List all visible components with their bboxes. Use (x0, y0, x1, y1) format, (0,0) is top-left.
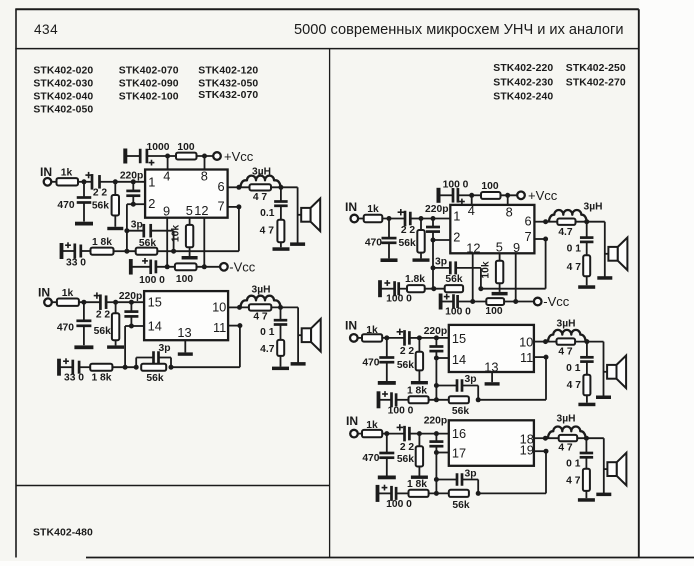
svg-text:100 0: 100 0 (445, 307, 471, 318)
svg-text:STK402-270: STK402-270 (566, 77, 626, 88)
node pin14 junction D (434, 356, 439, 361)
resistor 10k C (481, 253, 504, 292)
ground 56k E (411, 476, 428, 479)
resistor 4.7 zobel B (260, 340, 284, 367)
wire pin 13 stub B (184, 340, 186, 352)
svg-text:4: 4 (468, 203, 475, 218)
node junction 220p top A (131, 179, 136, 184)
speaker LS A (298, 199, 321, 232)
node pin11 D (544, 355, 549, 360)
pin labels E (452, 426, 534, 461)
wire 1k to cap C (382, 218, 405, 220)
svg-text:10k: 10k (171, 225, 182, 242)
wire rail to -Vcc C (504, 301, 534, 303)
svg-text:1k: 1k (61, 168, 73, 179)
node feedback left D (434, 397, 439, 402)
svg-text:100 0: 100 0 (388, 405, 414, 416)
svg-text:6: 6 (524, 213, 531, 228)
wire input D (358, 337, 362, 339)
capacitor 100 0 electrolytic top C (443, 180, 472, 205)
resistor 4.7 output C (557, 219, 575, 239)
wire 1 8k to node E (429, 492, 449, 494)
resistor 4 7 output A (250, 184, 272, 203)
wire output right C (587, 221, 605, 223)
inductor 3uH B (240, 284, 281, 307)
svg-text:56k: 56k (452, 406, 469, 417)
svg-text:100 0: 100 0 (386, 499, 412, 510)
ground 10k C (492, 292, 508, 296)
svg-text:5: 5 (186, 203, 193, 218)
svg-text:14: 14 (452, 352, 466, 367)
wire feedback drop A (127, 204, 133, 251)
node -Vcc terminal A (220, 259, 256, 274)
svg-text:13: 13 (177, 325, 191, 340)
svg-text:IN: IN (345, 200, 357, 214)
capacitor 470 D (362, 338, 394, 381)
wire 1k to cap E (382, 433, 404, 435)
left list column 1 (33, 65, 93, 115)
wire rail to -Vcc A (197, 266, 221, 268)
node junction 56k top B (113, 300, 118, 305)
ground speaker D (596, 396, 611, 400)
svg-text:56k: 56k (94, 326, 111, 337)
node -Vcc terminal C (534, 294, 570, 309)
node junction 56k top A (113, 179, 118, 184)
resistor 1k C (364, 204, 383, 222)
svg-text:100 0: 100 0 (139, 275, 165, 286)
wire feedback drop C (432, 240, 434, 289)
svg-text:+Vcc: +Vcc (528, 188, 558, 203)
svg-text:0 1: 0 1 (567, 244, 582, 255)
node feedback left B (123, 365, 128, 370)
svg-text:15: 15 (148, 295, 162, 310)
svg-text:2: 2 (453, 230, 460, 245)
node junction 56k top C (419, 216, 424, 221)
resistor 1k E (362, 420, 382, 437)
ground 470 A (75, 222, 93, 226)
svg-text:56k: 56k (397, 360, 414, 371)
svg-text:10: 10 (212, 299, 226, 314)
wire output-to-speaker-ground C (604, 222, 606, 278)
node IN input terminal A (40, 165, 52, 185)
resistor 4 7 output E (558, 435, 577, 454)
header title (294, 22, 624, 38)
resistor 4 7 output B (249, 304, 271, 322)
page number 434 (34, 22, 58, 37)
node 3p right C (478, 286, 483, 291)
ground 56k B (107, 345, 124, 348)
svg-text:3µH: 3µH (252, 166, 271, 177)
node 3p right A (171, 249, 176, 254)
svg-text:1: 1 (453, 208, 460, 223)
node pin14 junction B (129, 324, 134, 329)
svg-text:STK402-070: STK402-070 (119, 65, 179, 76)
capacitor 0 1 zobel D (566, 342, 593, 375)
wire rail to 100 A (168, 155, 176, 157)
svg-text:434: 434 (34, 22, 58, 37)
svg-text:33 0: 33 0 (66, 258, 86, 269)
svg-text:8: 8 (506, 205, 513, 220)
resistor 10k A (171, 218, 194, 256)
svg-text:17: 17 (452, 446, 466, 461)
wire pin 19 stub E (534, 450, 546, 452)
wire feedback drop B (125, 326, 131, 367)
svg-text:+Vcc: +Vcc (224, 149, 254, 164)
node IN input terminal D (345, 318, 358, 341)
node junction input D (384, 335, 389, 340)
svg-text:1: 1 (148, 174, 155, 189)
bottom caption STK402-480 (33, 528, 93, 539)
ground pin 13 D (485, 382, 500, 385)
svg-text:0 1: 0 1 (566, 363, 581, 374)
svg-text:3µH: 3µH (557, 414, 576, 425)
node junction 56k top E (417, 431, 422, 436)
svg-text:5: 5 (496, 239, 503, 254)
op-amp IC box D (449, 325, 534, 372)
capacitor 2 2 electrolytic C (398, 209, 421, 236)
wire 1k to cap D (382, 337, 404, 339)
node pin6 output C (543, 219, 548, 224)
capacitor 220p C (425, 204, 448, 240)
node feedback left E (434, 491, 439, 496)
capacitor 3p A (124, 220, 173, 252)
svg-text:56k: 56k (92, 201, 109, 212)
svg-text:1.8k: 1.8k (405, 274, 425, 285)
svg-text:100: 100 (176, 274, 193, 285)
svg-text:2: 2 (148, 196, 155, 211)
capacitor 1000 electrolytic A (140, 142, 170, 166)
svg-text:470: 470 (57, 323, 74, 334)
wire pin 7 stub C (534, 238, 545, 240)
svg-text:3µH: 3µH (584, 202, 603, 213)
wire pin11 bootstrap return D (478, 357, 546, 400)
svg-text:STK432-070: STK432-070 (198, 90, 258, 101)
capacitor 100 0 electrolytic D (377, 391, 414, 416)
wire output-to-speaker-ground B (297, 307, 299, 363)
svg-text:9: 9 (513, 240, 520, 255)
wire pin19 bootstrap return E (478, 451, 546, 493)
svg-text:56k: 56k (397, 454, 414, 465)
svg-text:STK402-020: STK402-020 (33, 65, 93, 76)
svg-text:STK402-480: STK402-480 (33, 528, 93, 539)
svg-text:STK402-120: STK402-120 (198, 65, 258, 76)
svg-text:220p: 220p (425, 204, 448, 215)
wire input E (358, 433, 362, 435)
ground speaker B (291, 362, 306, 366)
svg-text:4 7: 4 7 (253, 192, 268, 203)
resistor 56k feedback A (136, 238, 158, 255)
inductor 3uH A (239, 166, 281, 187)
capacitor 220p D (424, 326, 447, 358)
svg-text:1k: 1k (62, 288, 74, 299)
node feedback left A (124, 249, 129, 254)
svg-text:7: 7 (524, 229, 531, 244)
svg-text:56k: 56k (452, 500, 469, 511)
capacitor 470 E (362, 434, 394, 476)
svg-text:9: 9 (163, 204, 170, 219)
inductor 3uH E (545, 414, 586, 439)
resistor 56k feedback B (141, 364, 166, 384)
resistor 56k input C (399, 219, 425, 259)
node pin12 rail C (470, 299, 475, 304)
capacitor 3p bridge D (434, 374, 478, 400)
page bottom edge line (86, 557, 694, 559)
node junction 220p top E (434, 431, 439, 436)
ground speaker C (597, 276, 612, 280)
svg-text:STK402-100: STK402-100 (119, 92, 179, 103)
resistor 1 8k D (407, 385, 429, 403)
svg-text:IN: IN (345, 318, 357, 332)
resistor 100 bottom A (175, 263, 197, 285)
wire pin 12 down C (472, 253, 474, 301)
capacitor 220p B (119, 291, 142, 326)
svg-text:3µH: 3µH (252, 284, 271, 295)
wire 100 to +Vcc C (501, 194, 518, 196)
wire bottom rail C (458, 301, 487, 303)
node pin18 output E (543, 436, 548, 441)
ground zobel C (578, 285, 595, 289)
svg-text:2 2: 2 2 (93, 187, 108, 198)
capacitor 2 2 electrolytic D (397, 329, 420, 358)
svg-text:-Vcc: -Vcc (543, 294, 570, 309)
svg-text:3µH: 3µH (557, 318, 576, 329)
wire feedback drop E (435, 453, 437, 494)
wire 1 8k to node B (112, 366, 136, 368)
node pin6 output A (236, 185, 241, 190)
capacitor 2 2 electrolytic A (85, 172, 115, 198)
node output junction C (584, 219, 589, 224)
svg-text:4 7: 4 7 (260, 225, 275, 236)
inductor 3uH C (546, 202, 603, 222)
svg-text:-Vcc: -Vcc (229, 259, 256, 274)
pin labels D (452, 331, 533, 374)
capacitor 100 0 electrolytic fb C (378, 280, 412, 305)
wire output-to-speaker-ground E (603, 438, 605, 493)
pin labels A (148, 168, 224, 218)
node output junction A (278, 185, 283, 190)
capacitor 3p bridge B (134, 343, 171, 370)
resistor 100 top A (176, 142, 197, 160)
wire 1 8k to node D (429, 399, 449, 401)
svg-text:STK402-040: STK402-040 (33, 92, 93, 103)
pin labels C (453, 203, 531, 255)
svg-text:STK402-220: STK402-220 (493, 63, 553, 74)
node junction input A (82, 179, 87, 184)
ground bar for 1000 cap A (123, 149, 140, 164)
wire pin 13 stub D (491, 372, 493, 382)
svg-text:100: 100 (177, 142, 194, 153)
capacitor 0 1 zobel B (260, 307, 287, 340)
svg-text:100 0: 100 0 (386, 294, 412, 305)
wire output right E (586, 437, 603, 439)
wire to 220p D (419, 337, 448, 339)
capacitor 100 0 electrolytic A (129, 258, 165, 286)
wire pin 6 stub C (534, 221, 545, 223)
wire pin 18 stub E (534, 437, 546, 439)
node junction input E (384, 431, 389, 436)
capacitor 3p C (431, 256, 481, 288)
svg-text:33 0: 33 0 (64, 373, 84, 384)
svg-text:6: 6 (217, 179, 224, 194)
svg-text:11: 11 (213, 320, 226, 335)
wire input C (358, 218, 364, 220)
ground pin 13 B (178, 352, 193, 355)
resistor 56k input E (397, 434, 423, 476)
resistor 1 8k A (91, 237, 114, 255)
svg-text:4 7: 4 7 (566, 476, 581, 487)
resistor 56k input D (397, 338, 423, 381)
resistor 4 7 output D (557, 338, 576, 357)
svg-text:8: 8 (201, 168, 208, 183)
right list column 2 (566, 63, 626, 89)
svg-text:STK402-240: STK402-240 (493, 92, 553, 103)
page right border (638, 9, 640, 557)
svg-text:0 1: 0 1 (566, 458, 581, 469)
op-amp IC box A (145, 170, 228, 218)
resistor 100 bottom C (485, 298, 504, 317)
svg-text:220p: 220p (424, 326, 447, 337)
svg-text:4 7: 4 7 (567, 380, 582, 391)
capacitor 33 0 electrolytic B (57, 358, 90, 383)
svg-text:7: 7 (217, 199, 224, 214)
ground 470 E (378, 476, 396, 480)
resistor 56k feedback D (449, 396, 470, 417)
column divider (329, 49, 331, 557)
wire pin 14 stub B (131, 325, 144, 327)
wire pin 9 down A (166, 218, 168, 267)
wire output-to-speaker-ground D (603, 342, 605, 397)
wire pin 8 C (507, 195, 509, 205)
wire pin 7 stub A (228, 206, 239, 208)
capacitor 0.1 zobel A (260, 187, 287, 219)
node feedback left C (431, 286, 436, 291)
node output junction B (278, 305, 283, 310)
wire to 220p C (421, 218, 450, 220)
svg-text:470: 470 (57, 200, 74, 211)
svg-text:4.7: 4.7 (260, 344, 275, 355)
speaker LS E (604, 453, 627, 486)
ground zobel A (273, 247, 290, 251)
wire 1k to cap A (78, 181, 92, 183)
resistor 100 top C (481, 181, 501, 199)
node pin10 output B (237, 305, 242, 310)
resistor 56k input A (92, 182, 119, 227)
wire bottom rail A (156, 266, 175, 268)
wire pin 9 down C (515, 253, 517, 301)
node IN input terminal B (38, 286, 52, 307)
wire 100 to +Vcc A (197, 155, 214, 157)
op-amp IC box E (449, 420, 534, 466)
svg-text:220p: 220p (424, 416, 447, 427)
svg-text:100: 100 (481, 181, 498, 192)
node 3p right E (476, 491, 481, 496)
svg-text:1 8k: 1 8k (407, 479, 427, 490)
wire to 220p B (116, 301, 145, 303)
resistor 1.8k C (405, 274, 425, 292)
wire feedback drop D (435, 358, 437, 400)
resistor 1k B (57, 288, 79, 306)
wire pin 6 stub A (228, 186, 239, 188)
capacitor 33 0 electrolytic A (60, 242, 91, 268)
speaker LS C (605, 238, 628, 271)
svg-text:2 2: 2 2 (96, 310, 111, 321)
speaker LS B (298, 319, 321, 352)
ground bar for 100 0 cap C (437, 188, 454, 203)
svg-text:1k: 1k (366, 420, 378, 431)
node IN input terminal C (345, 200, 358, 223)
svg-text:14: 14 (148, 318, 162, 333)
ground 10k A (182, 256, 198, 260)
svg-text:0.1: 0.1 (260, 208, 275, 219)
node +Vcc terminal A (213, 149, 254, 164)
ground 470 C (381, 258, 398, 262)
node junction 220p top C (431, 216, 436, 221)
svg-text:56k: 56k (445, 274, 462, 285)
capacitor 470 A (57, 182, 91, 222)
svg-text:STK432-050: STK432-050 (198, 79, 258, 90)
svg-text:56k: 56k (399, 238, 416, 249)
ground 56k C (413, 258, 430, 261)
svg-text:15: 15 (452, 331, 466, 346)
ground speaker A (290, 242, 305, 246)
svg-text:1k: 1k (367, 204, 379, 215)
svg-text:11: 11 (520, 350, 533, 365)
node pin8 top rail C (505, 193, 510, 198)
wire pin 4 C (471, 195, 473, 205)
svg-text:STK402-230: STK402-230 (493, 77, 553, 88)
svg-text:12: 12 (194, 203, 208, 218)
resistor 4 7 zobel C (567, 255, 591, 285)
wire pin7 bootstrap return A (127, 207, 239, 251)
wire pin 4 A (167, 156, 169, 170)
ground zobel B (272, 367, 289, 371)
svg-text:3p: 3p (435, 256, 447, 267)
page left border (15, 9, 17, 557)
node pin7 A (236, 204, 241, 209)
svg-text:470: 470 (362, 358, 379, 369)
ground 470 D (378, 381, 396, 385)
wire pin7 bootstrap return C (481, 239, 546, 289)
svg-text:1 8k: 1 8k (92, 237, 112, 248)
node 3p right D (476, 397, 481, 402)
svg-text:STK402-250: STK402-250 (566, 63, 626, 74)
capacitor 0 1 zobel C (567, 222, 594, 256)
capacitor 0 1 zobel E (566, 438, 593, 469)
svg-text:3p: 3p (158, 343, 170, 354)
page top border (15, 8, 639, 10)
capacitor 470 B (57, 302, 92, 345)
node junction input B (81, 300, 86, 305)
svg-text:220p: 220p (120, 170, 143, 181)
svg-text:2 2: 2 2 (400, 346, 415, 357)
wire pin 12 down A (203, 218, 205, 267)
resistor 1 8k E (407, 479, 429, 497)
svg-text:220p: 220p (119, 291, 142, 302)
node pin9 rail A (165, 264, 170, 269)
left list column 2 (119, 65, 179, 102)
wire 1.8k to node C (425, 288, 445, 290)
right list column 1 (493, 63, 553, 103)
node junction input C (387, 216, 392, 221)
svg-text:5000 современных микросхем УНЧ: 5000 современных микросхем УНЧ и их анал… (294, 22, 624, 38)
wire pin 11 stub D (534, 356, 546, 358)
node pin4 top rail A (165, 154, 170, 159)
wire to 220p E (419, 433, 448, 435)
svg-text:1k: 1k (366, 325, 378, 336)
node pin7 C (543, 237, 548, 242)
svg-text:3p: 3p (464, 374, 476, 385)
svg-text:4 7: 4 7 (558, 347, 573, 358)
